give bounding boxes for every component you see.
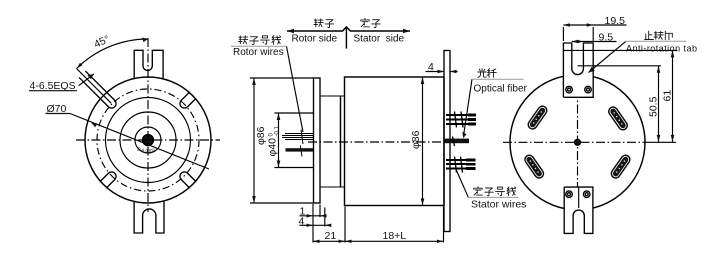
center ring [135,127,161,153]
svg-text:Rotor side: Rotor side [292,34,338,45]
horizontal centerline [308,141,469,143]
anti-rotation leader [589,41,627,72]
rotor thick cable [286,148,314,151]
dim O40.5: extension lines [275,113,314,168]
dim 21 [313,240,345,242]
crosshair horizontal + ext [503,141,645,143]
dim 19.5 [563,24,626,26]
top tab eyelets [566,86,573,93]
text O40.5 [267,125,281,156]
rotor-stator arrow line with break [287,27,410,31]
rotor wires leader [287,46,304,132]
svg-text:50.5: 50.5 [648,96,660,117]
svg-text:Stator wires: Stator wires [471,199,526,211]
hub [320,96,345,187]
rim slot 315 (lower right) [178,170,196,188]
label rotor side CJK [314,19,334,28]
stator top wire bundle [446,115,468,124]
capsule slot upper-left [533,111,543,125]
svg-text:φ86: φ86 [410,130,422,149]
horizontal centerline [76,139,220,141]
dim O86 left: dimension line [253,78,255,203]
main body [345,77,445,206]
inner circle d86 [106,98,191,183]
rim slot 135 (upper left, edges extended for callout) [79,71,118,110]
stator top ties [455,112,464,128]
dim 61 ext + line [564,49,678,51]
svg-text:21: 21 [325,230,337,242]
svg-text:61: 61 [662,90,674,102]
label stator wires [474,187,516,196]
bottom dim extension lines [313,204,444,243]
text O86 body [410,130,422,149]
center shaft dot [143,135,154,146]
label stator side CJK [361,18,381,27]
arc arrow right [142,38,148,43]
rotor wire bundle [282,134,314,140]
svg-text:Stator side: Stator side [354,34,405,45]
svg-text:Optical fiber: Optical fiber [474,84,528,95]
bolt circle (dash-dot) [97,89,199,191]
stator wires leader [457,171,469,198]
rotor wire ties [300,130,303,157]
dim 4 [300,224,332,226]
rim slot 45 (upper right) [178,92,196,110]
bottom fork tab [134,202,164,234]
flange plate [314,78,321,203]
dim 1 [300,215,325,217]
capsule slot lower-left [529,160,539,174]
top fork tab [134,50,163,78]
label anti-rotation tab CJK [645,31,673,40]
45deg radial line through slot [77,69,112,104]
dim O40.5: dimension line [278,113,280,168]
bottom tab eyelets [566,191,573,198]
fiber leader [464,79,473,136]
svg-text:φ40: φ40 [267,138,279,157]
crosshair vertical [577,58,579,206]
fiber tie [453,137,455,147]
dim O86 body internal [422,77,424,206]
stator end plate [444,51,450,232]
dim 9.5 [572,41,617,43]
stator bottom bundle ends [466,160,476,169]
text 50.5 rotated [648,96,660,117]
svg-text:4: 4 [428,61,434,73]
arc arrow left [77,63,83,69]
svg-text:19.5: 19.5 [605,15,626,27]
bottom tab [564,187,593,233]
top anti-rotation tab [563,43,593,97]
stator bottom wire bundle [446,160,466,169]
text 61 rotated [662,90,674,102]
dim 18+L [345,240,444,242]
O70 arrowhead on bolt circle [91,123,97,128]
capsule slot lower-right [616,160,626,174]
rim slot 225 (lower left) [100,170,118,188]
svg-text:Rotor wires: Rotor wires [233,47,284,58]
svg-text:9.5: 9.5 [599,31,614,43]
label optical fiber [478,69,497,78]
45deg dimension arc [77,39,148,69]
rotor/stator divider line [345,26,347,48]
leader 4-6.5EQS [79,74,94,86]
label rotor wires [239,36,281,45]
dim 50.5 ext + line [578,65,662,67]
capsule slot upper-right [613,111,623,125]
svg-text:4: 4 [299,216,305,228]
dim 4 (plate thickness) [426,71,458,73]
svg-text:Anti-rotation tab: Anti-rotation tab [626,43,697,53]
center dot [575,139,581,145]
outer flange circle [85,77,211,203]
tiny center mark text [137,150,159,153]
svg-text:φ86: φ86 [255,126,267,145]
outer circle [510,75,645,210]
optical fiber cable [445,139,470,144]
svg-text:-0.1: -0.1 [275,125,281,136]
stator top bundle ends [468,115,476,124]
text O86 left [255,126,267,145]
leader O70 through center [70,114,209,170]
dim O86 left: extension lines [250,78,314,203]
vertical centerline [147,38,149,212]
hub inner line [340,96,342,187]
inner circle hub [120,112,176,168]
svg-text:18+L: 18+L [383,230,407,242]
stator bottom ties [455,157,463,173]
